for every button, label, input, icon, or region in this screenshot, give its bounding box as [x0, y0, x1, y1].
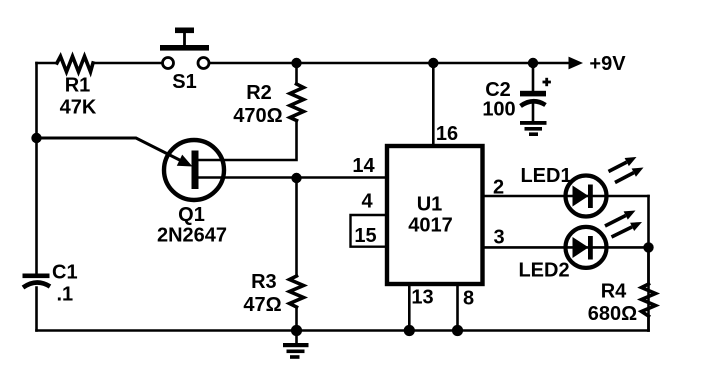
svg-text:R4: R4: [601, 281, 627, 303]
svg-text:C1: C1: [52, 262, 78, 284]
svg-text:U1: U1: [417, 194, 443, 216]
svg-text:3: 3: [493, 227, 504, 249]
svg-text:680Ω: 680Ω: [588, 303, 637, 325]
svg-text:8: 8: [463, 288, 474, 310]
svg-text:16: 16: [436, 123, 458, 145]
svg-text:LED2: LED2: [518, 260, 569, 282]
svg-text:13: 13: [411, 287, 433, 309]
svg-text:Q1: Q1: [178, 204, 205, 226]
svg-text:R3: R3: [251, 271, 277, 293]
svg-text:4017: 4017: [408, 215, 453, 237]
svg-text:+9V: +9V: [589, 53, 626, 75]
svg-text:470Ω: 470Ω: [233, 105, 282, 127]
svg-text:47K: 47K: [60, 97, 97, 119]
svg-text:R2: R2: [246, 82, 272, 104]
svg-text:15: 15: [354, 225, 376, 247]
svg-text:.1: .1: [56, 284, 73, 306]
svg-text:2N2647: 2N2647: [157, 225, 227, 247]
svg-text:LED1: LED1: [520, 165, 571, 187]
svg-text:14: 14: [352, 155, 375, 177]
svg-text:47Ω: 47Ω: [243, 294, 281, 316]
svg-text:R1: R1: [65, 75, 91, 97]
svg-text:4: 4: [361, 191, 373, 213]
svg-text:100: 100: [482, 99, 515, 121]
svg-text:S1: S1: [172, 71, 196, 93]
svg-text:2: 2: [493, 177, 504, 199]
